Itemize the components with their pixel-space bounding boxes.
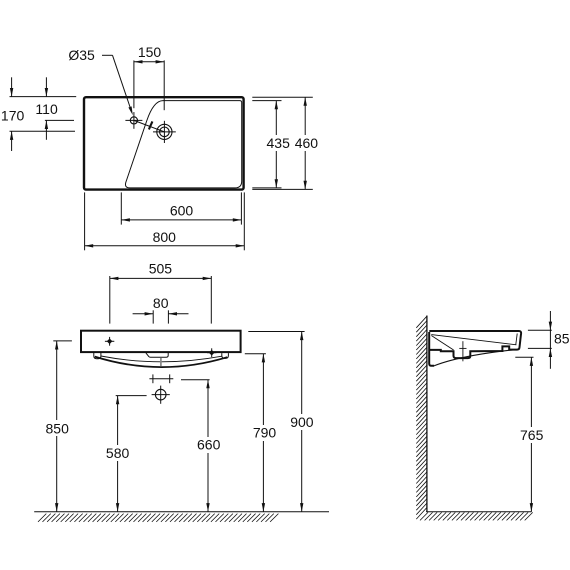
centre connector line faucet-to-drain xyxy=(134,120,165,131)
svg-text:900: 900 xyxy=(290,414,314,430)
svg-text:600: 600 xyxy=(170,203,194,219)
floor hatching (front view) xyxy=(38,514,278,522)
bowl interior slope lines (side) xyxy=(431,334,517,351)
left mounting tab xyxy=(94,353,101,359)
svg-text:150: 150 xyxy=(138,44,162,60)
bowl underside arc (front) xyxy=(95,356,227,367)
svg-text:505: 505 xyxy=(149,261,173,277)
svg-text:170: 170 xyxy=(1,108,25,124)
svg-text:85: 85 xyxy=(554,330,570,346)
siphon circle (front) xyxy=(152,386,170,404)
dimension 170 (drain from back edge) xyxy=(1,77,76,151)
dimension 505 (fixing centres) xyxy=(110,261,212,324)
wall line xyxy=(426,316,428,512)
label O35 with leader arrow xyxy=(68,47,132,115)
faucet hole crosshair (plan) xyxy=(125,112,142,129)
dimension 800 (overall width) xyxy=(85,192,245,250)
left fixing marker diamond xyxy=(105,337,114,346)
dimension 460 (overall depth) xyxy=(252,97,319,189)
right fixing marker diamond xyxy=(207,348,216,357)
basin profile (side view) main outline xyxy=(429,331,521,358)
svg-text:110: 110 xyxy=(35,101,58,117)
svg-text:580: 580 xyxy=(106,445,130,461)
dimension 790 (front rim height) xyxy=(245,354,277,512)
dimension 600 (bowl width) xyxy=(121,192,241,224)
floor hatching (side view) xyxy=(420,512,533,520)
drain boss (front) xyxy=(146,353,168,357)
dimension 150 (faucet spacing) xyxy=(134,44,164,110)
drain hole crosshair (plan) xyxy=(153,121,176,143)
basin bowl inner outline (plan) xyxy=(125,101,241,188)
svg-text:80: 80 xyxy=(153,295,169,311)
dimension 435 (inner depth) xyxy=(252,101,291,188)
floor line (side view) xyxy=(426,511,531,513)
svg-text:800: 800 xyxy=(153,229,177,245)
wall hatching xyxy=(416,316,427,519)
svg-text:660: 660 xyxy=(197,437,221,453)
svg-text:460: 460 xyxy=(295,135,319,151)
svg-text:435: 435 xyxy=(267,135,291,151)
floor line (front view) xyxy=(34,511,329,513)
faucet fixing holes (front, two crosses) xyxy=(149,374,173,383)
drain pipe stub (front) xyxy=(160,358,162,367)
dimension 85 (rim thickness, side) xyxy=(528,311,570,369)
dimension 110 (faucet from back edge) xyxy=(35,77,74,140)
basin outer rim (plan) xyxy=(84,97,244,189)
drain centreline (side) xyxy=(459,341,466,361)
dimension 850 (fixing height) xyxy=(44,341,72,512)
right mounting tab xyxy=(222,353,229,358)
svg-text:790: 790 xyxy=(253,425,277,441)
dimension 660 (tap-hole height) xyxy=(181,380,221,512)
svg-text:Ø35: Ø35 xyxy=(68,47,95,63)
svg-text:850: 850 xyxy=(46,421,70,437)
basin left edge against wall (side) xyxy=(429,332,434,366)
apron sweep curve (side) xyxy=(434,349,518,365)
dimension 80 (tap holes spacing) xyxy=(133,295,189,324)
dimension 580 (siphon height) xyxy=(104,396,147,512)
dimension 765 (underside height, side) xyxy=(515,357,545,511)
dimension 900 (top height) xyxy=(248,332,315,512)
oblique tick on connector xyxy=(149,121,153,129)
svg-text:765: 765 xyxy=(520,427,544,443)
basin body front rect xyxy=(81,331,241,352)
